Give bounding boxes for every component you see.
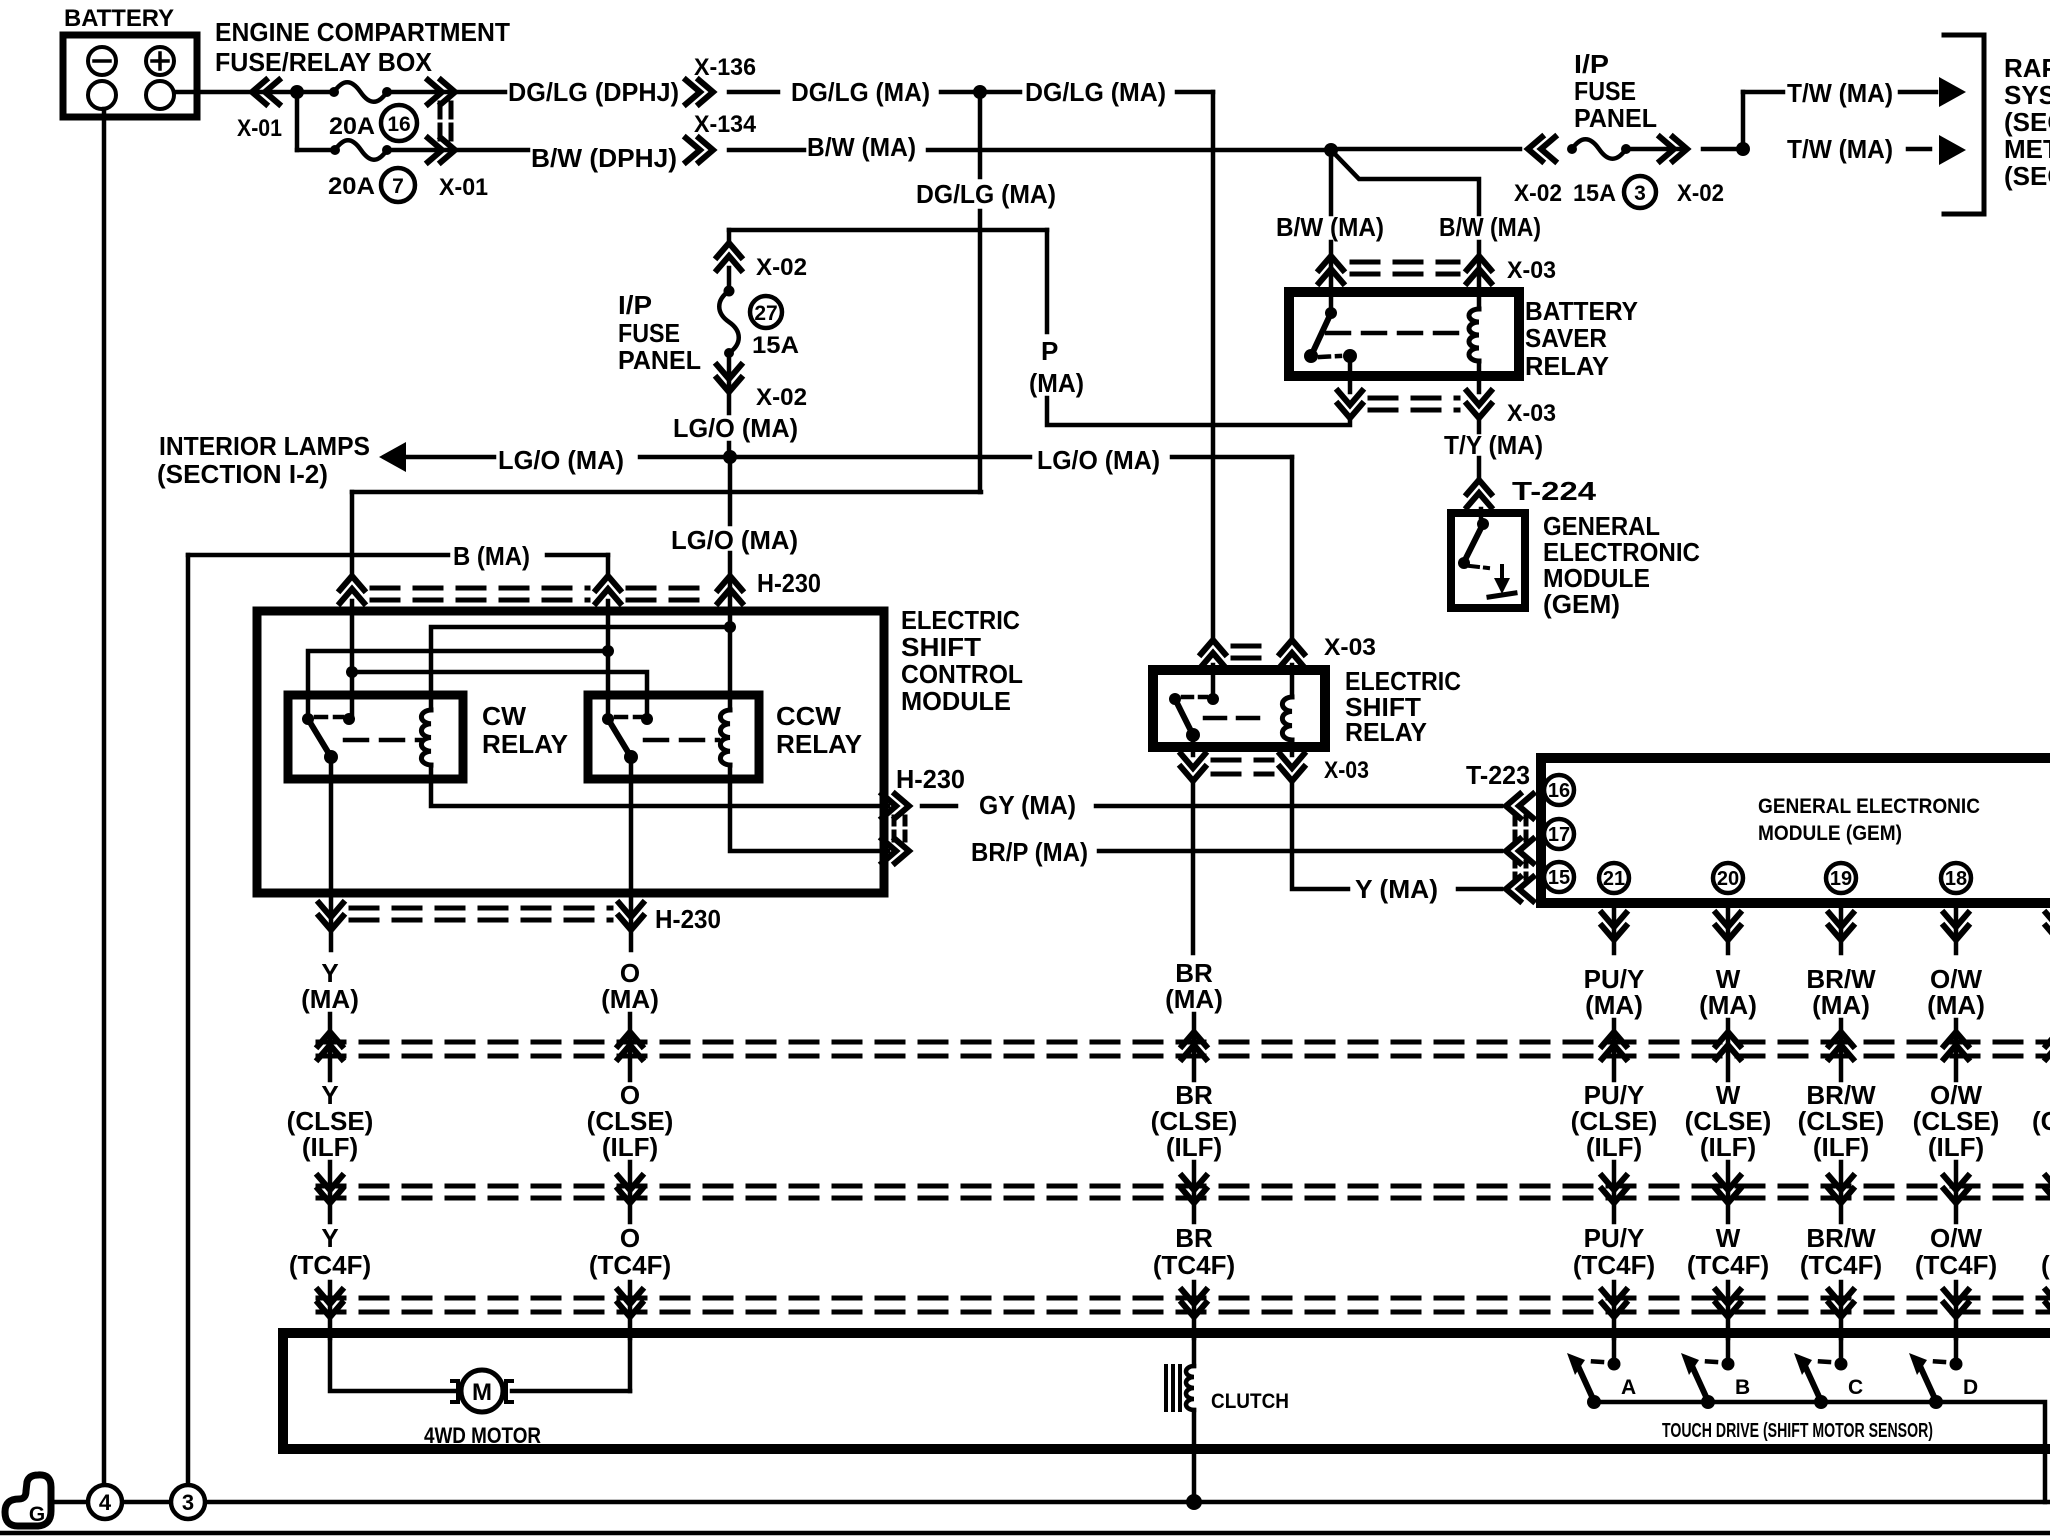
svg-text:B (MA): B (MA) [453,541,530,571]
svg-text:16: 16 [387,113,410,136]
svg-text:B: B [1735,1376,1750,1399]
svg-text:(TC4F): (TC4F) [1800,1250,1882,1280]
svg-text:15A: 15A [1573,180,1616,207]
svg-text:SYS: SYS [2004,80,2050,110]
svg-text:16: 16 [1548,780,1570,802]
svg-text:D: D [1963,1376,1978,1399]
svg-text:27: 27 [754,302,777,325]
svg-text:RELAY: RELAY [1525,351,1609,381]
svg-text:RELAY: RELAY [776,729,862,759]
svg-text:20A: 20A [329,113,375,140]
svg-text:X-03: X-03 [1507,257,1556,284]
svg-text:T-224: T-224 [1512,476,1597,506]
svg-text:T/W (MA): T/W (MA) [1787,134,1893,164]
svg-text:A: A [1621,1376,1636,1399]
svg-text:LG/O (MA): LG/O (MA) [673,413,798,443]
svg-text:I/P: I/P [1574,49,1609,79]
svg-text:RAP: RAP [2004,53,2050,83]
svg-text:(MA): (MA) [1029,368,1084,398]
svg-text:(ILF): (ILF) [302,1132,358,1162]
svg-text:CW: CW [482,701,526,731]
svg-text:DG/LG (MA): DG/LG (MA) [1025,77,1166,107]
svg-text:X-03: X-03 [1324,634,1376,661]
svg-text:FUSE/RELAY BOX: FUSE/RELAY BOX [215,47,433,77]
svg-text:(ILF): (ILF) [1700,1132,1756,1162]
svg-text:20A: 20A [328,173,375,200]
svg-text:(TC4F): (TC4F) [589,1250,671,1280]
svg-text:(SEC: (SEC [2004,161,2050,191]
svg-text:(TC4F): (TC4F) [1687,1250,1769,1280]
svg-text:4WD MOTOR: 4WD MOTOR [424,1423,541,1448]
svg-text:19: 19 [1830,868,1852,890]
svg-text:(TC4F): (TC4F) [1573,1250,1655,1280]
svg-text:(ILF): (ILF) [1813,1132,1869,1162]
svg-text:B/W (MA): B/W (MA) [807,132,916,162]
svg-text:BR: BR [1175,1223,1213,1253]
svg-text:(MA): (MA) [1585,990,1643,1020]
svg-text:7: 7 [392,175,404,198]
svg-text:X-02: X-02 [1514,180,1562,207]
svg-text:CCW: CCW [776,701,841,731]
svg-text:X-03: X-03 [1507,400,1556,427]
svg-text:CONTROL: CONTROL [901,659,1023,689]
svg-text:G: G [29,1503,45,1526]
svg-text:3: 3 [182,1490,194,1515]
svg-text:H-230: H-230 [757,568,821,598]
svg-text:SHIFT: SHIFT [901,632,981,662]
svg-text:LG/O (MA): LG/O (MA) [671,525,798,555]
svg-text:ENGINE COMPARTMENT: ENGINE COMPARTMENT [215,17,510,47]
svg-text:(ILF): (ILF) [1586,1132,1642,1162]
svg-text:B/W (MA): B/W (MA) [1439,212,1541,242]
svg-text:I/P: I/P [618,290,652,320]
svg-text:18: 18 [1945,868,1967,890]
svg-text:C: C [1848,1376,1863,1399]
svg-text:FUSE: FUSE [618,318,680,348]
svg-text:PANEL: PANEL [1574,103,1657,133]
svg-text:17: 17 [1548,824,1570,846]
svg-text:(MA): (MA) [601,984,659,1014]
svg-text:(TC4F): (TC4F) [1915,1250,1997,1280]
svg-text:(ILF): (ILF) [602,1132,658,1162]
svg-text:(TC4F): (TC4F) [1153,1250,1235,1280]
svg-text:X-02: X-02 [756,254,807,281]
svg-text:RELAY: RELAY [1345,717,1427,747]
svg-text:P: P [1041,336,1058,366]
svg-text:O/W: O/W [1930,1223,1982,1253]
svg-text:B/W (MA): B/W (MA) [1276,212,1384,242]
svg-text:(C: (C [2032,1106,2050,1136]
svg-text:(MA): (MA) [1812,990,1870,1020]
svg-text:DG/LG (MA): DG/LG (MA) [916,179,1056,209]
svg-text:DG/LG (MA): DG/LG (MA) [791,77,930,107]
svg-text:(MA): (MA) [1927,990,1985,1020]
svg-text:(MA): (MA) [1699,990,1757,1020]
svg-text:(: ( [2041,1250,2050,1280]
svg-text:FUSE: FUSE [1574,76,1636,106]
svg-text:X-136: X-136 [694,54,756,81]
svg-text:LG/O (MA): LG/O (MA) [498,445,624,475]
svg-text:GY (MA): GY (MA) [979,790,1076,820]
svg-text:M: M [472,1379,492,1406]
svg-text:X-02: X-02 [756,384,807,411]
svg-text:GENERAL ELECTRONIC: GENERAL ELECTRONIC [1758,795,1980,818]
svg-text:15A: 15A [752,332,799,359]
svg-text:Y (MA): Y (MA) [1355,874,1438,904]
svg-text:X-134: X-134 [694,111,757,138]
svg-text:INTERIOR LAMPS: INTERIOR LAMPS [159,431,370,461]
svg-text:TOUCH DRIVE (SHIFT MOTOR SENSO: TOUCH DRIVE (SHIFT MOTOR SENSOR) [1662,1420,1933,1442]
svg-text:ELECTRIC: ELECTRIC [901,605,1020,635]
svg-text:T/W (MA): T/W (MA) [1787,78,1893,108]
svg-text:3: 3 [1634,182,1646,205]
svg-text:BR/W: BR/W [1806,1223,1876,1253]
svg-text:Y: Y [321,1223,338,1253]
svg-text:MET: MET [2004,134,2050,164]
svg-text:(ILF): (ILF) [1928,1132,1984,1162]
svg-text:21: 21 [1603,868,1625,890]
svg-text:BATTERY: BATTERY [64,5,174,32]
svg-text:H-230: H-230 [655,904,721,934]
svg-text:RELAY: RELAY [482,729,568,759]
svg-text:T/Y (MA): T/Y (MA) [1444,430,1543,460]
svg-text:X-01: X-01 [439,174,488,201]
svg-text:X-02: X-02 [1677,180,1724,207]
svg-text:H-230: H-230 [896,764,965,794]
svg-text:W: W [1716,1223,1741,1253]
svg-text:(SECTION I-2): (SECTION I-2) [157,459,328,489]
svg-text:(ILF): (ILF) [1166,1132,1222,1162]
svg-text:O: O [620,1223,640,1253]
svg-text:PANEL: PANEL [618,345,701,375]
svg-text:X-01: X-01 [237,115,282,142]
svg-text:MODULE (GEM): MODULE (GEM) [1758,822,1902,845]
svg-text:X-03: X-03 [1324,757,1369,784]
svg-text:(MA): (MA) [301,984,359,1014]
svg-text:(MA): (MA) [1165,984,1223,1014]
svg-text:CLUTCH: CLUTCH [1211,1390,1289,1413]
svg-text:(GEM): (GEM) [1543,589,1620,619]
svg-text:BR/P (MA): BR/P (MA) [971,837,1088,867]
svg-text:PU/Y: PU/Y [1584,1223,1645,1253]
svg-text:(TC4F): (TC4F) [289,1250,371,1280]
svg-text:15: 15 [1548,867,1570,889]
svg-text:MODULE: MODULE [901,686,1011,716]
svg-text:BATTERY: BATTERY [1525,296,1638,326]
svg-text:SAVER: SAVER [1525,323,1607,353]
svg-text:B/W (DPHJ): B/W (DPHJ) [531,143,677,173]
svg-text:20: 20 [1717,868,1739,890]
svg-text:4: 4 [99,1490,112,1515]
svg-text:LG/O (MA): LG/O (MA) [1037,445,1160,475]
svg-text:DG/LG (DPHJ): DG/LG (DPHJ) [508,77,679,107]
svg-text:(SEC: (SEC [2004,107,2050,137]
svg-text:T-223: T-223 [1466,760,1530,790]
